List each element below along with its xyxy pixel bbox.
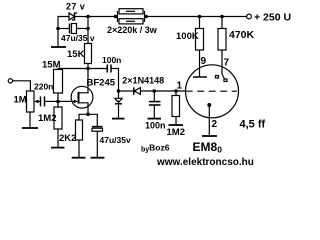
ground under 1M2 (51, 129, 65, 148)
svg-text:www.elektroncso.hu: www.elektroncso.hu (156, 157, 254, 168)
svg-text:220n: 220n (34, 82, 53, 92)
junction dots top-left (56, 27, 60, 31)
capacitor 220n (41, 96, 59, 106)
svg-text:470K: 470K (229, 29, 255, 41)
svg-text:15M: 15M (42, 59, 61, 70)
EM80 tube envelope (186, 65, 239, 118)
diode D1 1N4148 (115, 91, 122, 119)
pot wiper arrow (34, 100, 41, 104)
ground under 1M2 grid leak (169, 117, 184, 126)
ground under 100n (148, 118, 162, 120)
resistor 1M2 lower left (54, 101, 62, 129)
svg-text:+ 250 U: + 250 U (254, 12, 291, 24)
top rail to 2x220K (88, 16, 118, 18)
dashed target line (186, 90, 237, 92)
node zener/cap right vertical (87, 17, 89, 44)
pin 9 lead and target electrode (193, 50, 207, 77)
svg-text:7: 7 (224, 57, 230, 68)
svg-text:9: 9 (201, 56, 207, 67)
svg-text:100n: 100n (102, 55, 121, 65)
svg-text:1M2: 1M2 (38, 113, 56, 124)
svg-text:1: 1 (177, 81, 183, 92)
capacitor 100n coupling (88, 65, 119, 92)
capacitor 100n reservoir (149, 91, 161, 119)
svg-text:47u/35 v: 47u/35 v (61, 33, 95, 43)
resistor 15M (54, 69, 89, 102)
input wire (13, 81, 31, 91)
ground under 47u cap (91, 157, 105, 159)
resistor 470K (218, 17, 226, 51)
source node junction (86, 113, 90, 117)
resistor 100K (196, 17, 204, 51)
svg-text:4,5 ff: 4,5 ff (240, 118, 266, 130)
svg-text:27 v: 27 v (66, 2, 85, 12)
grid node junction (174, 89, 178, 93)
svg-text:BF245: BF245 (87, 77, 116, 88)
+250V terminal (247, 14, 252, 19)
potentiometer 1M body (27, 91, 35, 112)
wire top-left corner to zener node (58, 17, 69, 29)
svg-text:15K: 15K (67, 49, 85, 60)
input terminal (8, 79, 12, 83)
svg-text:1M2: 1M2 (167, 127, 185, 138)
drain node junction (86, 67, 90, 71)
svg-text:2: 2 (212, 119, 218, 130)
wire to D2 (119, 90, 134, 92)
svg-text:1M: 1M (14, 95, 27, 106)
capacitor C1 47u/35v left lead (58, 28, 70, 30)
svg-text:2×1N4148: 2×1N4148 (122, 76, 164, 86)
resistor 15K (85, 44, 92, 69)
zener diode 27V (69, 13, 88, 21)
pin 7 lead and deflection electrode (216, 50, 228, 82)
diode D1 junction (117, 89, 121, 93)
diode D2 1N4148 (134, 87, 186, 95)
svg-text:100n: 100n (145, 120, 166, 130)
capacitor C1 plates (70, 24, 89, 34)
resistor 2K2 (76, 114, 89, 140)
ground under D1 (112, 118, 125, 120)
svg-text:2K2: 2K2 (59, 133, 76, 144)
ground under pot (22, 112, 38, 128)
resistor pair 2x220K/3w (118, 9, 145, 24)
capacitor 47u/35v source bypass (88, 114, 103, 157)
node after D2 (153, 89, 157, 93)
resistor 1M2 grid leak (172, 91, 180, 117)
ground under 2K2 (72, 140, 86, 158)
svg-text:100K: 100K (176, 31, 199, 42)
top rail right section (145, 16, 247, 18)
transistor BF245 (58, 69, 93, 115)
ground under C1 (51, 29, 66, 48)
gate node junction (56, 100, 60, 104)
svg-text:47u/35v: 47u/35v (100, 135, 131, 145)
cathode dot and pin 2 lead (202, 103, 217, 136)
svg-text:2×220k / 3w: 2×220k / 3w (107, 25, 158, 35)
